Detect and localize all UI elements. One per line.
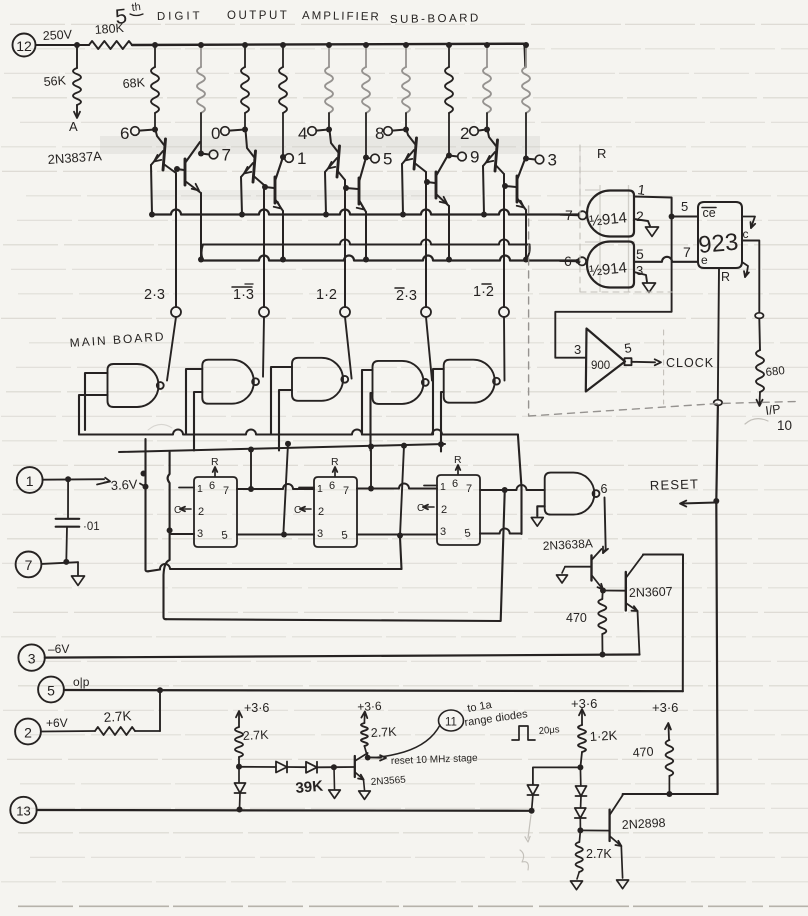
output terminal 7 [201, 146, 231, 165]
terminal pin 3 [18, 644, 44, 670]
resistor column R6 at x=366 [362, 45, 370, 157]
diode D5 down [576, 767, 587, 807]
wire node circle to G3 output [345, 317, 352, 379]
svg-text:3: 3 [548, 151, 557, 170]
U3 right pin to vertical [742, 241, 759, 316]
wire FF1 pin7 to FF2 [237, 484, 314, 489]
svg-text:A: A [69, 119, 78, 134]
FF1 pin labels [197, 480, 229, 542]
wire node circle to G5 output [503, 317, 506, 381]
U1 pin 1 output [634, 181, 672, 216]
G5 input wires [433, 369, 444, 435]
svg-text:8: 8 [375, 124, 384, 143]
resistor 2.7K (a) [235, 727, 243, 757]
svg-text:+3·6: +3·6 [571, 696, 597, 711]
wire Q8 coll up [366, 753, 369, 758]
svg-text:5: 5 [681, 199, 688, 214]
svg-text:9: 9 [470, 148, 479, 167]
pencil ghost arrow [520, 815, 531, 870]
resistor 2.7K pin2 [41, 690, 160, 735]
pulse waveform symbol [512, 726, 535, 740]
node dot 603,590 [600, 588, 606, 594]
svg-text:2.7K: 2.7K [103, 708, 132, 725]
capacitor C1 .01 [56, 479, 100, 561]
wire D3-node [317, 766, 334, 768]
node dot input x=406 [403, 127, 409, 133]
transistor Q6 2N3638A [557, 549, 604, 590]
node dot x=526 y=159.5 [523, 156, 529, 162]
transistor Q8 2N3565 [355, 753, 371, 799]
wire down to node [238, 757, 240, 767]
node dot busU x=403 [400, 212, 406, 218]
transistor Q4 (lower) [262, 160, 283, 259]
FF2 pin labels [317, 480, 349, 542]
input terminal 8 [375, 124, 404, 143]
node dot rail x=201 [198, 42, 204, 48]
node dot x=366 y=158.5 [363, 155, 369, 161]
node ellipse on reset line [714, 400, 722, 406]
svg-text:39K: 39K [295, 778, 324, 797]
wire collector leg x=345 [344, 180, 346, 307]
svg-text:SUB-BOARD: SUB-BOARD [390, 12, 481, 26]
resistor 470 (Q7) [598, 591, 606, 655]
supply arrow +3.6 (d) [652, 700, 678, 740]
node dot at 77,45 [74, 42, 80, 48]
svg-text:5: 5 [636, 246, 644, 262]
transistor Q6 (lower) [343, 161, 366, 259]
node dot rail x=245 [242, 42, 248, 48]
svg-text:12: 12 [16, 38, 32, 54]
label ->3.6V [97, 477, 138, 493]
svg-text:th: th [131, 1, 141, 14]
node dot busL x=283 [280, 257, 286, 263]
node dot x=283 y=158.0 [280, 154, 286, 160]
node dot 671.6,216.5 [669, 214, 675, 220]
node dot rail x=329 [326, 42, 332, 48]
node dot input x=487 [484, 127, 490, 133]
svg-text:2N3638A: 2N3638A [542, 536, 593, 553]
svg-text:250V: 250V [42, 27, 73, 43]
G1 input wires [85, 373, 108, 430]
resistor column R10 at x=526 [522, 45, 530, 158]
node ellipse on c-line [755, 313, 763, 319]
svg-text:2.7K: 2.7K [586, 847, 612, 861]
resistor column R2 at x=201 [197, 45, 205, 153]
wire collector leg x=264 [263, 185, 265, 307]
svg-text:1: 1 [26, 473, 34, 489]
FF1 pin1 stub [179, 487, 194, 489]
node dot x=201 y=154.5 [198, 151, 204, 157]
NAND reset gate [545, 473, 595, 515]
U3 bottom-right pin arrow [742, 262, 749, 277]
node dot rail x=449 [446, 42, 452, 48]
wire pin1 right [43, 478, 104, 481]
hop then join pin5 bus [520, 487, 522, 534]
AND gate U1 (1/2 914 upper) [587, 191, 634, 237]
svg-text:I/P: I/P [764, 402, 781, 418]
resistor column R1 at x=155 [151, 45, 159, 129]
svg-text:10: 10 [777, 418, 792, 433]
svg-text:1: 1 [317, 483, 323, 495]
node dot busL x=449 [446, 257, 452, 263]
bus upper (gate U1 input) [152, 210, 579, 215]
svg-text:470: 470 [632, 745, 654, 760]
arrow reset out [370, 755, 386, 760]
wire collector leg x=426 [425, 172, 427, 307]
wire 1.2K down [580, 752, 582, 767]
svg-text:1·3: 1·3 [233, 287, 254, 303]
AND gate U2 (1/2 914 lower) [587, 242, 634, 288]
connector node circle x=345 [340, 307, 350, 317]
node dot rail x=406 [403, 42, 409, 48]
bus lower (gate U2 input) [201, 256, 579, 261]
svg-text:1·2: 1·2 [316, 287, 337, 303]
transistor Q7 2N3607 [603, 555, 643, 655]
transistor Q1 (upper) [151, 130, 176, 215]
NAND gate G1 [108, 364, 159, 407]
node dot input x=155 [152, 127, 158, 133]
wire U1-out down to inverter feed [555, 217, 671, 358]
FF1 C clock arrow [174, 505, 191, 516]
arrow IP down [757, 392, 763, 406]
input terminal 6 [120, 124, 153, 143]
svg-text:C: C [174, 505, 181, 516]
node dot 580.4,767.4 [577, 764, 583, 770]
svg-text:DIGIT: DIGIT [157, 10, 203, 23]
net label 2.3 overline 2 [395, 288, 417, 304]
svg-text:2.7K: 2.7K [242, 728, 269, 743]
riser x251 [250, 450, 252, 489]
net label 1.3 with overline [232, 284, 254, 303]
U3 label ce overline [702, 206, 716, 220]
node dot rail x=283 [280, 42, 286, 48]
terminal pin 5 [38, 677, 64, 703]
dashed pencil horiz near gates [580, 291, 672, 293]
svg-text:2·3: 2·3 [144, 287, 165, 303]
input terminal 2 [460, 124, 485, 143]
node dot busU x=326 [323, 212, 329, 218]
svg-text:7: 7 [25, 557, 33, 573]
transistor Q3 (upper) [241, 130, 264, 215]
svg-text:C: C [417, 503, 424, 514]
transistor Q5 (upper) [325, 130, 345, 215]
supply arrow +3.6 (b) [357, 699, 382, 723]
wire node left + D4 [527, 767, 580, 810]
diode D1 down [235, 767, 246, 809]
node dot input x=245 [242, 127, 248, 133]
FF2 left vertical [284, 444, 289, 532]
inverter U4 900 triangle [586, 329, 625, 392]
bus middle emitter return [203, 240, 530, 245]
svg-text:2: 2 [24, 725, 32, 741]
svg-text:2: 2 [636, 208, 644, 224]
node dot 333.9,767.2 [331, 764, 337, 770]
IC U3 923 box [698, 202, 742, 268]
flip-flop FF1 box [194, 477, 237, 547]
title text 5th DIGIT OUTPUT AMPLIFIER SUB-BOARD [114, 1, 481, 29]
svg-text:2: 2 [198, 506, 204, 518]
nest bus A [79, 430, 518, 435]
ground below node [329, 767, 341, 798]
resistor 2.7K (c) [571, 830, 613, 889]
terminal pin 1 [17, 467, 43, 493]
wire pin7 right + ground [42, 559, 85, 586]
label to 1a range diodes [464, 699, 529, 729]
svg-text:7: 7 [343, 485, 349, 497]
svg-text:900: 900 [591, 360, 610, 372]
callout circle 11 [370, 710, 464, 758]
node dot 531.6,810.8 [529, 808, 535, 814]
svg-text:1·2K: 1·2K [589, 728, 618, 744]
riser x371 [370, 447, 372, 489]
wire U1 out to 923 pin5 [672, 199, 698, 217]
svg-text:1: 1 [440, 481, 446, 493]
diode D2 right [276, 762, 287, 773]
svg-text:R: R [721, 270, 730, 284]
svg-text:0: 0 [211, 124, 220, 143]
node dot busU x=484 [481, 212, 487, 218]
svg-text:3: 3 [317, 528, 323, 540]
svg-text:C: C [294, 505, 301, 516]
terminal pin 7 [16, 552, 42, 578]
diode D3 right [306, 762, 317, 773]
svg-text:7: 7 [222, 146, 231, 165]
wire reset line down [716, 405, 718, 794]
svg-text:2: 2 [441, 504, 447, 516]
svg-text:56K: 56K [43, 73, 67, 89]
nest dots [248, 447, 254, 453]
svg-text:5: 5 [47, 683, 55, 699]
FF2 pin1 stub [299, 487, 314, 489]
input terminal 4 [298, 124, 327, 143]
svg-text:6: 6 [452, 478, 458, 490]
node dot busL x=366 [363, 257, 369, 263]
diode D6 down [575, 808, 586, 830]
node dot rail x=526 [523, 42, 529, 48]
FF1 R reset arrow [211, 456, 219, 476]
wire diode chain [239, 766, 276, 768]
wire collector leg x=176 [175, 173, 177, 307]
FF2 C clock arrow [294, 505, 311, 516]
U2 output wire to 923 pin e [634, 244, 698, 262]
wire 13 rail [37, 809, 532, 812]
node dot busL x=526 [523, 257, 529, 263]
wire node to Q8 base [334, 766, 355, 768]
svg-text:3.6V: 3.6V [110, 477, 138, 493]
wire Q9 collector to 794 rail [623, 794, 718, 795]
resistor column R5 at x=329 [325, 45, 333, 129]
transistor Q2 (lower) [174, 142, 201, 259]
wire Q7 collector top [643, 555, 683, 692]
pencil swirl under I/P [745, 419, 768, 424]
transistor Q9 (upper) [483, 130, 504, 215]
wire pin12 to rail [36, 44, 90, 46]
U2 pin 3 ground [634, 263, 656, 292]
FF3 C clock arrow [417, 503, 434, 514]
svg-text:o|p: o|p [73, 675, 90, 689]
wire node circle to G2 output [263, 317, 264, 377]
node dot busU x=152 [149, 212, 155, 218]
svg-text:–6V: –6V [48, 642, 69, 656]
node dot busU x=242 [239, 212, 245, 218]
flip-flop FF2 box [314, 477, 357, 547]
node dot 145.5,486.6 [143, 484, 149, 490]
G2 input wires [186, 369, 202, 435]
node dot 580.4,830.4 [577, 827, 583, 833]
terminal pin 2 [15, 719, 41, 745]
U4 output square [625, 358, 632, 365]
svg-text:3: 3 [636, 263, 643, 278]
wire o/p rail [64, 690, 683, 691]
svg-text:+6V: +6V [46, 716, 68, 730]
NAND gate G4 [373, 361, 424, 404]
svg-text:6: 6 [209, 480, 215, 492]
label I/P 10 [764, 402, 792, 433]
supply arrow +3.6 (a) [236, 701, 269, 727]
svg-text:+3·6: +3·6 [357, 699, 382, 714]
node dot 239,766.6 [236, 764, 242, 770]
node dot Q8 collector [365, 755, 371, 761]
output terminal 1 [283, 149, 306, 168]
wire node circle to G1 output [167, 317, 176, 381]
svg-text:680: 680 [765, 365, 785, 379]
resistor column R9 at x=487 [483, 45, 491, 129]
U1 pin 2 ground [634, 208, 659, 236]
wire -6V rail [45, 655, 640, 658]
pencil smudge left-mid [148, 424, 172, 430]
svg-text:3: 3 [28, 651, 36, 667]
FF3 left vertical [400, 446, 404, 536]
connector node circle x=504 [499, 307, 509, 317]
top supply rail [132, 44, 526, 67]
pencil graphite band over transistor rows [100, 136, 540, 154]
svg-text:1·2: 1·2 [473, 284, 494, 300]
svg-text:·01: ·01 [83, 521, 100, 533]
NAND gate G2 [202, 360, 254, 404]
node dot 169.6,530.4 [167, 527, 173, 533]
terminal pin 13 [10, 797, 36, 823]
svg-text:R: R [597, 146, 606, 161]
connector node circle x=264 [259, 307, 269, 317]
svg-text:20μs: 20μs [538, 724, 560, 737]
resistor column R4 at x=283 [279, 45, 287, 156]
U1 input bubble pin 7 [560, 207, 587, 223]
svg-text:11: 11 [445, 717, 457, 729]
wire node circle to G4 output [426, 317, 432, 381]
wire collector leg x=504 [503, 174, 505, 307]
connector node circle x=426 [421, 307, 431, 317]
svg-text:13: 13 [16, 804, 30, 819]
NAND gate G5 [444, 360, 495, 403]
wire pin3 bus [171, 529, 522, 539]
FF3 pin labels [440, 478, 472, 540]
svg-text:6: 6 [329, 480, 335, 492]
transistor Q9 2N2898 [580, 795, 628, 888]
svg-text:RESET: RESET [650, 476, 700, 493]
svg-text:1: 1 [197, 483, 203, 495]
svg-text:1: 1 [297, 149, 306, 168]
U3 pin top-right arrow [742, 217, 755, 229]
wire c-line down [758, 318, 761, 350]
input terminal 0 [211, 124, 243, 143]
wire 923 pin e down (reset line top) [718, 269, 719, 403]
left long vertical x145.5 [146, 439, 149, 571]
svg-text:AMPLIFIER: AMPLIFIER [302, 10, 381, 23]
node dot 602.5,654.5 [600, 652, 606, 658]
svg-text:+3·6: +3·6 [244, 701, 269, 715]
svg-text:3: 3 [440, 526, 446, 538]
transistor Q8 (lower) [424, 155, 449, 259]
svg-text:180K: 180K [94, 21, 125, 37]
node dot rail x=155 [152, 42, 158, 48]
node dot rail x=366 [363, 42, 369, 48]
terminal pin 12 [13, 34, 36, 57]
wire FF3 pin7 to reset gate [480, 485, 545, 490]
resistor column R7 at x=406 [402, 45, 410, 129]
svg-text:3: 3 [574, 342, 581, 357]
supply arrow +3.6 (c) [571, 696, 597, 725]
wire FF2 pin7 to FF3 [357, 484, 437, 489]
dashed boundary vertical left [528, 206, 530, 415]
reset gate pin 6 out [601, 482, 609, 553]
dashed boundary horizontal [529, 402, 796, 417]
node dot 239,809.5 [237, 807, 243, 813]
node dot x=449 y=156.5 [446, 153, 452, 159]
G4 input wires [362, 370, 373, 435]
connector node circle x=176 [171, 307, 181, 317]
left long vertical x169.6 [164, 452, 170, 619]
transistor Q7 (upper) [402, 130, 426, 215]
wire clock out [632, 359, 662, 365]
U2 input bubble pin 6 [560, 253, 586, 269]
dashed pencil vertical near gates [579, 145, 581, 292]
wire bus y619 [166, 492, 505, 621]
svg-text:2: 2 [318, 506, 324, 518]
svg-text:CLOCK: CLOCK [666, 356, 714, 370]
FF2 R reset arrow [331, 456, 339, 476]
wire bus y569 [148, 538, 402, 572]
node dot reset arrow [713, 498, 719, 504]
svg-text:4: 4 [298, 124, 307, 143]
net label 1.2 overline 2 [473, 284, 494, 300]
svg-text:+3·6: +3·6 [652, 700, 678, 715]
svg-text:6: 6 [601, 482, 608, 496]
resistor 680 [756, 350, 764, 392]
node dot input x=329 [326, 127, 332, 133]
resistor column R8 at x=449 [445, 45, 453, 155]
svg-text:7: 7 [466, 483, 472, 495]
svg-text:7: 7 [683, 244, 691, 260]
node dot rail x=487 [484, 42, 490, 48]
resistor 2.7K (b) [361, 723, 368, 746]
svg-text:2·3: 2·3 [396, 288, 417, 304]
G3 input wires [271, 367, 292, 435]
resistor 56K vertical with arrow A [73, 45, 81, 118]
resistor column R3 at x=245 [241, 45, 249, 129]
svg-text:3: 3 [197, 528, 203, 540]
svg-text:e: e [701, 253, 708, 267]
flip-flop FF3 box [437, 475, 480, 545]
reset arrow left [680, 501, 716, 507]
svg-text:7: 7 [223, 485, 229, 497]
svg-text:5: 5 [383, 150, 392, 169]
svg-text:2: 2 [460, 124, 469, 143]
svg-text:OUTPUT: OUTPUT [227, 10, 289, 22]
svg-text:c: c [743, 227, 749, 241]
pencil construction grid near gates [585, 185, 635, 292]
NAND gate G3 [292, 358, 343, 401]
output terminal 9 [449, 148, 479, 167]
